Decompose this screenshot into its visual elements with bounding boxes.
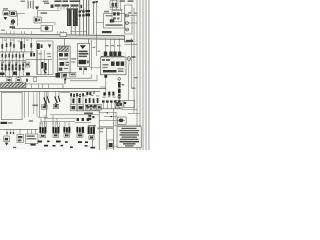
band drop stubs — [7, 31, 64, 35]
big box F lower left — [2, 93, 23, 120]
switch row bodies lower — [1, 64, 24, 71]
wire — [60, 91, 70, 93]
wire above band — [71, 31, 87, 33]
relay box top right — [110, 1, 118, 8]
sensor cluster G — [70, 93, 84, 111]
transistor Q2 — [42, 97, 50, 110]
wire to B1 — [96, 21, 104, 23]
wire coil primary — [74, 25, 76, 34]
wire engine left — [24, 91, 26, 118]
wire pair distributor — [87, 0, 89, 35]
junction dots — [107, 112, 109, 114]
wire node A — [17, 14, 19, 27]
label — [21, 1, 26, 2]
box C mid labels — [39, 53, 52, 57]
switch row left — [2, 52, 23, 77]
connector marks row — [85, 98, 99, 103]
junction boxes above strip — [7, 77, 37, 83]
tick labels mid — [93, 47, 101, 52]
label row ignition — [55, 0, 83, 8]
wire above title — [114, 124, 142, 126]
bottom-left bus — [0, 128, 38, 130]
connector blob — [104, 74, 107, 77]
bottom dashes — [13, 141, 88, 149]
fuse labels — [4, 40, 29, 42]
ECM connector block — [101, 57, 127, 75]
label right of relay — [71, 58, 76, 59]
wire drop to igniter — [88, 38, 90, 43]
connector blobs with drops — [77, 118, 89, 121]
label 36 — [44, 3, 49, 5]
label 4-0n — [126, 40, 133, 42]
pin row ECM top — [100, 96, 126, 109]
label 4-0 — [102, 31, 112, 33]
paper speckle — [0, 0, 150, 150]
resistor small — [51, 5, 54, 9]
wire igniter to ECM — [90, 66, 101, 68]
junction block C8 — [112, 11, 122, 22]
connector blobs — [79, 11, 81, 13]
transistor Q3 — [53, 96, 60, 109]
label small — [1, 30, 5, 31]
resistor boxes under relay — [55, 72, 76, 78]
air pump box B1 — [104, 14, 126, 29]
wire — [96, 2, 98, 56]
lamp L1 — [11, 20, 15, 27]
wire relay to band B — [63, 78, 65, 84]
injector cluster 1 — [39, 122, 46, 138]
wires below sensor box — [38, 50, 49, 75]
wire — [37, 9, 60, 11]
label — [10, 24, 14, 25]
tiny labels — [78, 95, 99, 96]
sensor box C — [37, 41, 53, 75]
wire x64 drop — [63, 38, 65, 46]
small labels between rows — [1, 62, 25, 63]
hatch bar ground strip — [0, 83, 26, 88]
terminal tick — [92, 1, 95, 3]
knock sensor circle — [118, 77, 138, 85]
connector C9 — [10, 26, 16, 28]
label text column — [28, 1, 34, 10]
wire — [93, 3, 95, 35]
ECM wires — [99, 113, 125, 128]
gauge D1 — [41, 26, 53, 32]
junction sensor — [64, 74, 67, 84]
sensor box I — [124, 101, 135, 108]
label 1.6L — [33, 105, 39, 107]
knock sensor dark bar — [118, 80, 121, 100]
fuse drops below band — [2, 38, 31, 51]
wire — [110, 9, 123, 11]
connector arrow — [35, 7, 39, 11]
wire — [128, 112, 140, 114]
label 1 OX — [98, 128, 104, 130]
O2 sensor stack — [85, 115, 97, 149]
wire from K1 — [16, 13, 25, 15]
wire step — [26, 84, 63, 88]
wire — [105, 78, 107, 95]
connector cluster x30 — [30, 53, 35, 57]
wire — [41, 23, 55, 26]
connector boxes row — [86, 105, 102, 111]
main bus line B2 — [0, 90, 100, 92]
label 1.5 — [81, 10, 85, 11]
wire to gauge — [12, 28, 41, 30]
igniter box D — [78, 44, 90, 67]
harness wires lower mid — [41, 115, 99, 127]
wire — [115, 112, 117, 127]
wire bus right: vertical harness lines — [132, 0, 150, 150]
label Ds 2.2 — [41, 12, 48, 14]
bus wire mid — [0, 60, 26, 62]
label top right text — [120, 0, 134, 1]
bottom bus wire — [0, 76, 55, 78]
firewall band bus — [0, 34, 132, 42]
label 1G — [1, 122, 8, 124]
wires top — [113, 0, 121, 11]
label 105 — [84, 113, 93, 115]
wire — [37, 10, 39, 17]
staircase wire 1 — [65, 75, 91, 78]
staircase wire 2 — [70, 75, 97, 81]
title block — [117, 127, 141, 148]
pin circle — [93, 92, 95, 94]
injector cluster 2 — [52, 122, 59, 137]
AC box — [25, 62, 30, 67]
main bus line B1 — [0, 87, 106, 89]
ground G1 — [4, 17, 8, 20]
relay K1 — [10, 11, 16, 16]
spark wire 2 — [82, 0, 84, 35]
dark ends row — [0, 72, 30, 76]
wire right of igniter — [91, 40, 93, 70]
blobs below igniter — [79, 68, 82, 71]
box with sensor — [108, 140, 114, 148]
connector blobs row — [86, 92, 114, 96]
motor M1 — [118, 117, 127, 124]
fuse circle 7.5 — [127, 56, 135, 100]
sensor switch bank — [101, 38, 124, 56]
wire coil secondary — [70, 25, 72, 34]
band connector box — [60, 33, 67, 37]
pin labels above strip — [105, 45, 121, 46]
wire — [26, 58, 52, 60]
label — [43, 1, 49, 2]
switch S1 — [34, 17, 41, 23]
hanging components bottom left — [4, 129, 38, 145]
injector cluster 3 — [63, 127, 70, 137]
bottom small lines — [112, 146, 117, 148]
sensor box left — [115, 101, 123, 108]
wire — [75, 121, 91, 123]
switch row bodies upper — [1, 54, 24, 58]
pin row engine harness — [76, 105, 100, 111]
ECM right edge — [106, 108, 113, 150]
fuse F1 top-left — [3, 8, 9, 15]
fuse bodies — [1, 41, 32, 49]
relay block RB1 — [58, 46, 71, 73]
wire stub — [100, 86, 106, 88]
wires band to bus right — [125, 41, 138, 44]
spark wire 1 — [79, 0, 81, 35]
wire — [122, 109, 137, 111]
connector box C10 top right — [125, 5, 138, 34]
transistor Q1 — [41, 62, 47, 74]
ECM left edge — [98, 110, 100, 150]
drops to Q2/Q3 — [45, 91, 59, 98]
bus wire — [0, 51, 34, 53]
drops above bus — [32, 84, 49, 88]
injector cluster 4 — [76, 127, 84, 137]
engine box edges — [38, 91, 48, 117]
scan veil regions — [0, 44, 126, 77]
label above B1 — [104, 11, 109, 13]
ignition coil T1 — [58, 7, 78, 26]
